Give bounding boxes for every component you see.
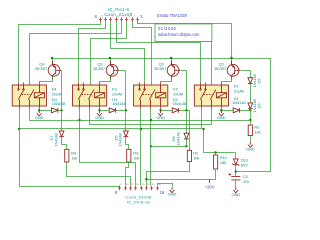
junction coil- K4 <box>38 109 40 111</box>
svg-text:9: 9 <box>120 184 122 186</box>
svg-text:BC557: BC557 <box>215 66 228 71</box>
resistor R2 10k <box>187 150 191 161</box>
resistor R3 10k <box>127 149 131 162</box>
wire pin7 to K3 <box>79 22 106 83</box>
wire K4 left pin down to pin9 <box>20 109 120 187</box>
junction busC left <box>18 128 20 130</box>
svg-text:GND: GND <box>217 115 226 120</box>
junction rail Q3 <box>109 57 111 59</box>
diode D3 1N4148 flyback <box>109 108 115 113</box>
svg-text:GND: GND <box>168 192 177 197</box>
svg-text:1N4148: 1N4148 <box>232 100 246 105</box>
diode D2 1N4148 flyback <box>172 108 178 113</box>
svg-text:8: 8 <box>95 14 98 19</box>
ground C3 <box>232 187 241 197</box>
svg-text:9: 9 <box>115 190 118 195</box>
wire pin16 to gnd <box>158 184 173 187</box>
junction D4 chain <box>60 109 62 111</box>
svg-text:10k: 10k <box>193 156 199 161</box>
svg-text:.: . <box>159 107 160 109</box>
wire D7 to R4 <box>62 137 67 150</box>
wire K3 pin1 down to pin12 <box>80 109 136 186</box>
junction busC tap <box>202 128 204 130</box>
wire coil K3 to gnd node <box>99 109 101 111</box>
connector J1 IC_Pin1-8 <box>95 7 144 21</box>
diode D9 1N4148 <box>248 103 253 109</box>
svg-text:1N4148: 1N4148 <box>52 101 66 106</box>
svg-text:.: . <box>38 107 39 109</box>
wire R10 bottom +20V to pin14 <box>147 169 216 180</box>
svg-text:2xUM: 2xUM <box>52 91 62 96</box>
junction busA K3 <box>78 119 80 121</box>
svg-text:1N4148: 1N4148 <box>112 101 126 106</box>
junction D1 chain <box>249 109 251 111</box>
transistor Q3 BC557 <box>106 61 119 80</box>
svg-text:2xUM: 2xUM <box>112 91 122 96</box>
svg-text:10k: 10k <box>133 156 139 161</box>
wire coil K1 to gnd node <box>221 109 223 111</box>
wire D5 to D9 <box>250 84 252 103</box>
svg-text:D5: D5 <box>256 78 261 84</box>
resistor R4 10k <box>65 149 69 162</box>
wire K2 pin1 to pin13 <box>140 109 142 186</box>
transistor Q1 BC557 <box>227 61 240 80</box>
junction busA K2 <box>150 119 152 121</box>
wire emitter Q1 <box>231 59 233 65</box>
wire D2 node down to R2 <box>187 111 190 151</box>
svg-text:.: . <box>149 107 150 109</box>
svg-text:.: . <box>18 107 19 109</box>
wire base Q1 <box>241 70 251 72</box>
wire box edge down to K1 <box>211 42 213 85</box>
svg-text:GND: GND <box>35 115 44 120</box>
wire D1 to base chain <box>240 110 251 112</box>
svg-text:.: . <box>28 107 29 109</box>
svg-text:8: 8 <box>102 16 104 18</box>
wire base Q3 <box>119 70 126 72</box>
svg-text:GND: GND <box>156 115 165 120</box>
wire D9 down <box>250 109 252 125</box>
wire pin2 to K2 <box>133 22 152 85</box>
diode D10 zener 8V2 <box>232 159 239 166</box>
svg-text:BC557: BC557 <box>155 66 168 71</box>
note box saba-forum <box>155 24 212 42</box>
svg-text:1N4148: 1N4148 <box>175 131 180 145</box>
wire D4 to base chain <box>58 110 62 112</box>
junction bus1 end chain4 <box>249 119 251 121</box>
ground K1 coil <box>217 110 226 120</box>
relay K4 2xUM <box>12 82 46 109</box>
svg-text:.: . <box>220 107 221 109</box>
wire R4 to pin11 <box>67 163 131 186</box>
wire R2 to pin14 <box>147 162 190 186</box>
junction R10 top <box>214 151 216 153</box>
svg-text:1N4148: 1N4148 <box>53 132 58 146</box>
wire base Q2 <box>181 70 187 72</box>
wire to diode D2 <box>161 110 173 112</box>
svg-text:2xUM: 2xUM <box>173 91 183 96</box>
wire base chain2 upper <box>125 71 127 131</box>
svg-text:.: . <box>78 107 79 109</box>
wire coil K4 to gnd node <box>39 109 41 111</box>
diode D6 1N4148 <box>124 131 129 137</box>
wire collector Q3 to coil <box>100 77 111 83</box>
svg-text:10k: 10k <box>254 130 260 135</box>
svg-text:GND: GND <box>246 147 255 152</box>
wire bus C to K1 <box>20 109 202 129</box>
diode D1 1N4148 flyback <box>233 108 239 113</box>
transistor Q2 BC557 <box>167 61 180 80</box>
svg-text:2: 2 <box>134 16 136 18</box>
wire R1 to gnd <box>250 136 252 142</box>
wire bus B K3 to K1 <box>90 109 212 125</box>
wire bus A from K4 to chain4 <box>30 109 251 121</box>
junction busC K2 column <box>140 128 142 130</box>
wire pin5 to K1 <box>117 22 201 83</box>
svg-text:1: 1 <box>141 14 144 19</box>
wire K2 pin2 to pin15 <box>150 109 152 186</box>
wire R10 top stub <box>215 153 217 155</box>
svg-text:1N4148: 1N4148 <box>173 101 187 106</box>
junction coil- K1 <box>220 109 222 111</box>
svg-text:.: . <box>139 107 140 109</box>
wire D10 top <box>235 153 237 159</box>
svg-text:01/2026: 01/2026 <box>158 26 177 31</box>
diode D8 1N4148 <box>184 133 189 139</box>
wire to diode D3 <box>100 110 110 112</box>
svg-text:8V2: 8V2 <box>241 163 249 168</box>
power flag +20V <box>209 179 211 183</box>
resistor R1 10k <box>248 125 252 136</box>
svg-text:+20V: +20V <box>205 184 215 189</box>
wire collector Q2 to coil <box>161 77 172 83</box>
wire collector Q4 to coil <box>40 77 53 83</box>
ground K2 coil <box>156 110 165 120</box>
junction rail Q2 <box>170 57 172 59</box>
wire emitter Q2 <box>171 59 173 65</box>
wire base chain1 upper <box>61 71 63 131</box>
diode D5 1N4148 <box>248 78 253 84</box>
wire chain3 to K2 pin column <box>151 146 187 148</box>
junction chain3 tap <box>185 145 187 147</box>
svg-text:.: . <box>210 107 211 109</box>
wire D10 to C3 <box>235 165 237 177</box>
resistor R10 180 <box>214 155 218 169</box>
junction K2 column <box>150 145 152 147</box>
wire collector Q1 to coil <box>222 77 232 83</box>
wire base Q4 <box>61 70 62 72</box>
svg-text:saba-forum.dl2jas.com: saba-forum.dl2jas.com <box>158 32 200 37</box>
junction rail Q1 <box>230 57 232 59</box>
wire R3 to pin10 <box>126 163 129 186</box>
svg-text:.: . <box>88 107 89 109</box>
svg-text:11: 11 <box>131 184 134 186</box>
svg-text:D9: D9 <box>256 103 261 109</box>
svg-text:47u: 47u <box>243 179 249 184</box>
capacitor C3 47u <box>231 175 240 177</box>
svg-text:GND: GND <box>95 115 104 120</box>
wire +20V rail <box>53 58 271 60</box>
svg-text:16: 16 <box>158 184 161 186</box>
wire base chain3 upper <box>186 71 188 134</box>
wire D3 to base chain <box>116 110 126 112</box>
ground K4 coil <box>35 110 44 120</box>
junction C3 top <box>235 170 237 172</box>
wire C3 to gnd <box>235 181 237 188</box>
wire D8 to tap <box>186 139 188 147</box>
wire to diode D1 <box>222 110 234 112</box>
svg-text:15: 15 <box>152 184 155 186</box>
svg-text:1N4148: 1N4148 <box>118 132 123 146</box>
wire D6 to R3 <box>126 137 129 150</box>
wire pin4 to K4 <box>30 22 122 85</box>
ground K3 coil <box>95 110 104 120</box>
junction D2 chain <box>185 109 187 111</box>
relay K2 2xUM <box>134 82 168 109</box>
junction D3 chain <box>125 109 127 111</box>
svg-text:Ersatz TBA1029: Ersatz TBA1029 <box>157 13 188 18</box>
wire to diode D4 <box>40 110 52 112</box>
junction rail Q4 <box>51 57 53 59</box>
svg-text:10: 10 <box>126 184 129 186</box>
wire D2 to base chain <box>179 110 187 112</box>
wire pin6 to K2 <box>111 22 145 83</box>
svg-text:BC557: BC557 <box>93 66 106 71</box>
wire coil K2 to gnd node <box>160 109 162 111</box>
ground pin16 <box>168 187 177 197</box>
junction coil- K2 <box>159 109 161 111</box>
wire pin8 wrap-left to K4 <box>19 22 101 83</box>
svg-text:12: 12 <box>136 184 139 186</box>
wire emitter Q4 <box>52 59 54 65</box>
diode D4 1N4148 flyback <box>52 108 58 113</box>
ground R1 <box>246 142 255 152</box>
wire busC tap to R10/D10 top <box>204 129 236 153</box>
svg-text:2xUM: 2xUM <box>234 88 244 93</box>
svg-text:180: 180 <box>220 160 227 165</box>
junction coil- K3 <box>98 109 100 111</box>
junction pin14 +20V <box>145 178 147 180</box>
svg-text:16: 16 <box>160 190 165 195</box>
connector J2 IC_Pin9-16 <box>115 184 165 195</box>
svg-text:13: 13 <box>142 184 145 186</box>
wire base chain4 upper <box>250 71 252 78</box>
svg-text:BC557: BC557 <box>35 66 48 71</box>
svg-text:IC_Pin9-16: IC_Pin9-16 <box>127 200 150 205</box>
svg-text:GND: GND <box>232 192 241 197</box>
svg-text:10k: 10k <box>71 156 77 161</box>
svg-text:.: . <box>200 107 201 109</box>
relay K3 2xUM <box>73 82 107 109</box>
wire pin1 to +20V rail <box>138 22 232 59</box>
wire 8V rail right side <box>236 59 271 172</box>
wire emitter Q3 <box>110 59 112 65</box>
svg-text:14: 14 <box>147 184 150 186</box>
diode D7 1N4148 <box>59 131 64 137</box>
svg-text:.: . <box>98 107 99 109</box>
relay K1 2xUM <box>194 82 228 109</box>
transistor Q4 BC557 <box>48 61 61 80</box>
wire pin3 to K3 <box>91 22 127 85</box>
